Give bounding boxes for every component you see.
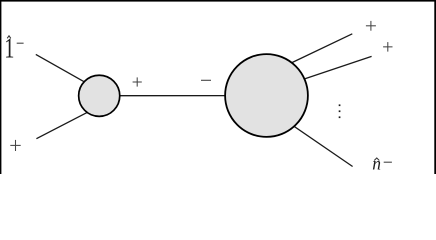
- label: vertical ellipsis between right legs: [339, 104, 341, 118]
- label: helicity - beside large blob: [201, 79, 211, 81]
- label: helicity + beside small blob: [133, 77, 142, 86]
- wire: external leg + (top right, first): [288, 34, 352, 65]
- wire: external leg + (lower left): [36, 109, 93, 138]
- label: helicity + (lower left external): [10, 140, 20, 151]
- svg-text:1: 1: [4, 33, 14, 64]
- label: 1-hat with superscript minus (upper left): [4, 33, 14, 64]
- label: helicity + (top right second leg): [383, 42, 392, 52]
- wire: external leg n-hat (lower right): [288, 122, 353, 166]
- wire: external leg 1-hat (upper left): [36, 54, 90, 85]
- frame (partial border): [0, 0, 436, 2]
- wire: internal propagator line: [100, 95, 266, 97]
- wire: external leg + (top right, second): [296, 56, 372, 81]
- blob: right sub-amplitude (large circle): [225, 54, 308, 137]
- svg-text:n: n: [372, 153, 381, 173]
- label: helicity + (top right first leg): [366, 21, 376, 31]
- blob: left sub-amplitude (small circle): [79, 75, 120, 116]
